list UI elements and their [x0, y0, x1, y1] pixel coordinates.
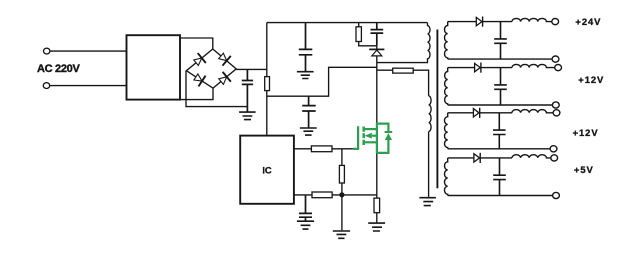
resistor R6 feedback	[312, 192, 332, 198]
svg-text:+5V: +5V	[574, 164, 594, 175]
wire secondary4 top	[448, 157, 474, 159]
wire secondary2 top	[448, 67, 475, 69]
source stub	[364, 141, 377, 143]
transformer T1 primary winding	[428, 23, 431, 59]
svg-text:AC 220V: AC 220V	[37, 63, 80, 75]
terminal output2 minus	[552, 102, 559, 108]
transistor Q1 mosfet (green)	[353, 123, 392, 154]
wire mosfet source lead	[376, 153, 378, 195]
resistor R2 snubber	[359, 23, 377, 46]
transformer secondary winding 1	[445, 22, 448, 60]
inductor L1	[512, 18, 552, 21]
EMI filter box	[127, 35, 181, 99]
diode D1 bridge top-left	[192, 53, 206, 68]
diode D4 bridge bottom-right	[217, 72, 231, 87]
diode D8 output	[473, 108, 479, 118]
terminal output1 minus	[552, 56, 559, 62]
ground bridge	[239, 112, 256, 120]
terminal output2 plus	[555, 65, 562, 71]
wire filter to bridge AC2	[180, 88, 213, 99]
svg-text:+24V: +24V	[575, 16, 601, 27]
terminal output1 plus	[552, 19, 559, 25]
ground aux winding	[419, 198, 436, 206]
capacitor C5 bypass	[299, 195, 312, 221]
ground junction	[333, 231, 350, 238]
wire diode to inductor ch1	[483, 21, 512, 23]
inductor L3	[512, 110, 553, 113]
capacitor C4 snubber	[371, 23, 384, 46]
wire secondary1 top	[448, 21, 477, 23]
svg-text:+12V: +12V	[578, 74, 604, 85]
terminal output4 plus	[551, 155, 558, 161]
ground C3	[300, 128, 317, 135]
bridge rectifier diamond	[186, 49, 236, 88]
wire secondary3 top	[448, 112, 474, 114]
transformer secondary winding 4	[444, 158, 447, 196]
resistor R7 sense	[376, 195, 378, 223]
wire mosfet drain lead	[376, 63, 378, 123]
wire junction to ground	[341, 195, 343, 231]
diode D3 bridge bottom-left	[192, 72, 205, 87]
capacitor C9 output4	[493, 158, 506, 196]
wire secondary3 bottom rail	[448, 148, 550, 150]
transformer T1 core	[436, 30, 438, 189]
terminal AC input bottom	[43, 83, 49, 89]
ground C2	[297, 72, 314, 79]
capacitor C3 vcc	[302, 96, 316, 128]
resistor R4 gate	[311, 146, 332, 152]
diode D5 clamp zener	[376, 46, 378, 63]
resistor R3 aux	[393, 68, 414, 73]
body arrow	[372, 135, 377, 137]
svg-text:IC: IC	[262, 165, 272, 176]
wire diode to inductor ch3	[480, 112, 512, 114]
wire top rail	[267, 22, 428, 24]
capacitor C1 bulk	[242, 69, 253, 111]
capacitor C7 output2	[494, 68, 507, 105]
channel segments	[362, 127, 365, 146]
diode D6 output	[476, 17, 482, 27]
ground sense	[368, 223, 385, 231]
junction node dot	[339, 192, 344, 197]
wire secondary4 bottom rail	[448, 195, 553, 197]
wire bridge negative to ground node	[186, 71, 247, 107]
wire gate drive	[294, 148, 353, 150]
diode D2 bridge top-right	[217, 51, 231, 66]
transformer secondary winding 3	[444, 113, 447, 149]
wire AC line bottom	[50, 85, 127, 87]
IC U1 box	[240, 136, 294, 204]
inductor L4	[512, 155, 551, 158]
wire diode to inductor ch4	[480, 157, 512, 159]
terminal output3 minus	[550, 146, 557, 152]
ground C5	[297, 221, 314, 229]
wire aux feed resistor run	[377, 70, 429, 96]
terminal output4 minus	[553, 192, 560, 198]
wire secondary1 bottom rail	[448, 58, 552, 60]
wire AC line top	[50, 50, 127, 52]
drain stub	[364, 128, 377, 130]
capacitor C8 output3	[493, 113, 506, 149]
wire diode to inductor ch2	[481, 67, 512, 69]
terminal output3 plus	[553, 110, 560, 116]
wire feedback-sense run	[294, 194, 377, 196]
wire secondary2 bottom rail	[448, 104, 553, 106]
bus vertical	[376, 123, 378, 154]
resistor R1 startup	[265, 77, 270, 91]
diode D7 output	[475, 63, 481, 73]
body diode branch	[377, 124, 389, 153]
wire DC+ vertical riser	[266, 23, 268, 136]
wire filter to bridge AC1	[180, 38, 213, 49]
terminal AC input top	[44, 48, 50, 54]
wire drain to primary	[377, 59, 428, 63]
wire VCC node run	[267, 67, 377, 96]
gate lead and bar	[353, 126, 358, 150]
inductor L2	[512, 64, 555, 67]
capacitor C2 line filter	[299, 23, 313, 72]
wire bridge positive rail	[236, 68, 267, 70]
transformer secondary winding 2	[445, 68, 448, 105]
diode D9 output	[474, 153, 480, 163]
svg-text:+12V: +12V	[573, 127, 599, 138]
transformer T1 aux winding	[429, 96, 432, 197]
capacitor C6 output1	[494, 22, 507, 60]
resistor R5 gate-source	[341, 149, 343, 195]
